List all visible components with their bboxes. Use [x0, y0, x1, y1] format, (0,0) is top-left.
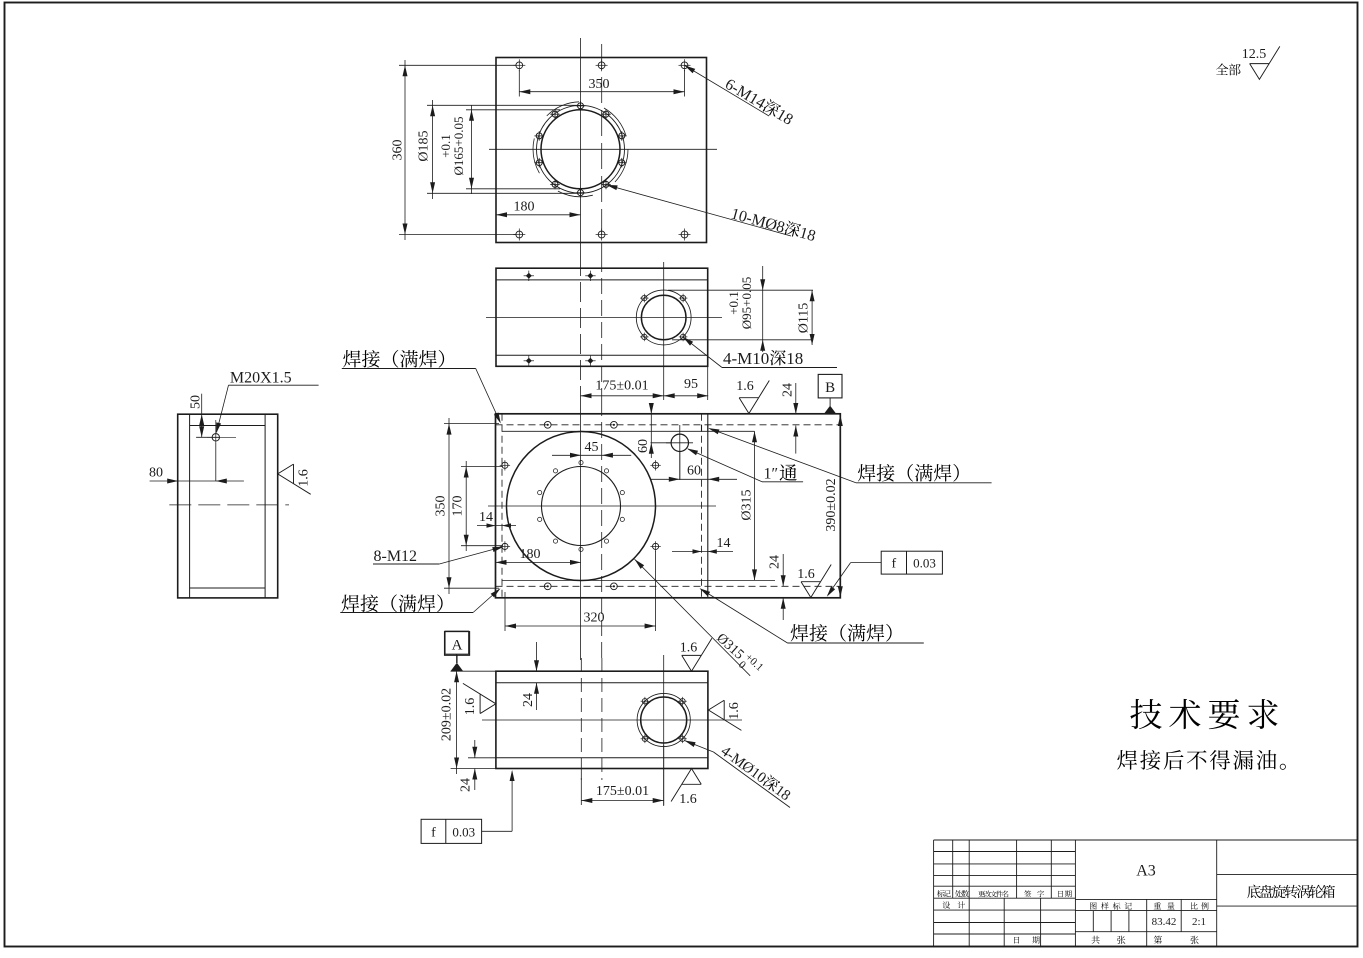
main view top tangent ext line — [502, 430, 755, 432]
svg-text:10-MØ8: 10-MØ8 — [729, 205, 787, 236]
svg-text:4-M10: 4-M10 — [723, 349, 769, 368]
side view flange lines — [190, 425, 266, 427]
dim 350 horizontal — [519, 91, 684, 93]
svg-text:180: 180 — [520, 547, 541, 562]
svg-text:350: 350 — [589, 77, 610, 92]
svg-text:B: B — [825, 380, 835, 396]
top view center bore circle — [541, 110, 620, 189]
dim 24 bottom view lower — [474, 740, 476, 758]
title block grid — [934, 840, 1358, 947]
dim 60 vertical — [650, 404, 652, 458]
svg-text:M20X1.5: M20X1.5 — [230, 370, 292, 387]
svg-text:18: 18 — [772, 782, 794, 804]
dim 14 right wall — [672, 551, 733, 553]
label 8-M12 — [374, 548, 418, 565]
main view hidden wall left dashed — [501, 414, 503, 598]
top view dashed spigot arc circle — [533, 102, 628, 197]
dim 14 left wall — [477, 525, 516, 527]
label M20X1.5 — [230, 370, 292, 387]
main view inner wall right dashed — [701, 414, 703, 598]
svg-text:Ø165+0.05: Ø165+0.05 — [451, 117, 466, 176]
dim 180 horizontal top view — [496, 214, 581, 216]
label 4-M10 deep18 — [723, 349, 803, 368]
dim 320 — [505, 625, 656, 627]
main view inner circle — [542, 467, 621, 546]
dim 80 side view — [150, 480, 244, 482]
svg-text:1.6: 1.6 — [679, 792, 697, 807]
top view corner holes 6-M14 — [516, 62, 523, 69]
surface 1.6 bottom view below — [671, 769, 701, 802]
top view 10 tapped holes M8 — [578, 103, 584, 109]
title block part name — [1247, 885, 1335, 899]
dim 24 bottom right — [782, 554, 784, 586]
bottom view flange lines — [496, 682, 708, 684]
weld label right middle — [858, 464, 959, 482]
main view big bore dia315 — [507, 432, 656, 581]
dim 170 — [465, 461, 467, 551]
main view hidden top dashed — [496, 424, 841, 426]
svg-text:80: 80 — [149, 466, 163, 481]
bottom view bolt circle arcs — [637, 693, 690, 746]
top view bolt circle — [537, 105, 625, 193]
front view centerline continuation — [580, 256, 582, 400]
dim 60 horizontal — [650, 478, 737, 480]
bottom view circle centerline vertical — [663, 655, 665, 806]
dim 175 front view — [581, 395, 664, 397]
svg-text:1.6: 1.6 — [727, 702, 742, 720]
svg-text:0.03: 0.03 — [452, 825, 475, 840]
dim 24 top right — [795, 383, 797, 414]
svg-text:1″: 1″ — [764, 466, 779, 483]
svg-text:18: 18 — [773, 106, 795, 129]
notch pipe boss — [702, 425, 708, 432]
dim 95 front view — [664, 395, 709, 397]
bottom view 4 tapped holes — [680, 699, 685, 704]
svg-text:1.6: 1.6 — [297, 469, 312, 487]
svg-text:50: 50 — [189, 395, 204, 409]
tech requirements title — [1130, 699, 1277, 729]
svg-text:Ø185: Ø185 — [417, 130, 432, 161]
front view 4 tapped holes M10 — [680, 295, 685, 300]
front view bore circle dia95 — [641, 295, 686, 340]
weld label bottom left — [342, 594, 443, 612]
svg-text:1.6: 1.6 — [463, 698, 478, 716]
feature frame f 0.03 bottom — [421, 819, 482, 843]
svg-text:360: 360 — [391, 140, 406, 161]
datum A symbol main — [445, 632, 470, 656]
svg-text:14: 14 — [479, 510, 493, 525]
label 4-M010 deep18 rotated — [685, 741, 714, 753]
main view hidden bottom dashed — [496, 585, 841, 587]
front view circle vertical centerline — [663, 262, 665, 400]
svg-text:A: A — [452, 638, 463, 654]
svg-text:1.6: 1.6 — [797, 567, 815, 582]
top view second centerline dashed — [601, 44, 603, 256]
weld label top left — [343, 350, 444, 368]
main view flange holes top/bottom — [544, 421, 551, 428]
svg-text:320: 320 — [584, 611, 605, 626]
side view centerline dashed — [169, 504, 289, 506]
tech requirements body — [1117, 750, 1286, 770]
datum B symbol — [818, 374, 842, 398]
dim 50 side view — [201, 394, 203, 438]
svg-text:Ø95+0.05: Ø95+0.05 — [739, 277, 754, 329]
main view inner wall right solid — [707, 414, 709, 598]
svg-text:24: 24 — [459, 778, 474, 792]
leader 10-M08 deep18 — [606, 185, 791, 236]
front view countersunk marks — [526, 273, 532, 279]
svg-text:14: 14 — [717, 536, 731, 551]
svg-text:83.42: 83.42 — [1152, 916, 1177, 928]
side view outline — [178, 414, 278, 598]
side view M20 hole — [212, 434, 219, 441]
svg-text:175±0.01: 175±0.01 — [595, 379, 648, 394]
bottom view outline — [496, 671, 708, 768]
dim 350 main — [448, 418, 450, 594]
svg-text:1.6: 1.6 — [736, 379, 754, 394]
top view horizontal centerline — [489, 148, 717, 150]
front view outline — [496, 268, 708, 366]
surface 1.6 side view — [278, 464, 311, 494]
svg-text:Ø315: Ø315 — [740, 489, 755, 520]
main view horizontal centerline — [488, 505, 716, 507]
dim dia185 vertical — [432, 100, 434, 199]
dim 180 main — [496, 561, 582, 563]
one-inch hole — [671, 434, 688, 451]
svg-text:390±0.02: 390±0.02 — [824, 478, 839, 531]
svg-text:170: 170 — [451, 496, 466, 517]
front view horizontal centerline — [486, 317, 722, 319]
main view bottom tangent ext line — [502, 579, 775, 581]
svg-text:6-M14: 6-M14 — [722, 76, 768, 113]
main view second centerline — [601, 400, 603, 660]
dim dia95 with tolerance — [668, 289, 813, 291]
svg-text:24: 24 — [768, 555, 783, 569]
svg-text:45: 45 — [585, 440, 599, 455]
svg-text:f: f — [891, 557, 896, 572]
dim 175 bottom view — [581, 800, 663, 802]
title block row labels — [937, 890, 951, 897]
svg-text:12.5: 12.5 — [1242, 47, 1267, 62]
svg-text:f: f — [431, 826, 436, 841]
svg-text:18: 18 — [786, 349, 803, 368]
surface 1.6 on main top edge — [739, 381, 769, 414]
bottom view horizontal centerline — [482, 719, 742, 721]
weld label bottom right — [791, 624, 892, 642]
dim 24 bottom view top — [536, 642, 538, 671]
side view inner wall lines — [189, 414, 191, 598]
svg-text:209±0.02: 209±0.02 — [440, 688, 455, 741]
svg-text:95: 95 — [684, 377, 698, 392]
surface 1.6 bottom edge main view — [801, 565, 831, 598]
dim dia115 — [811, 290, 813, 345]
surface 1.6 bottom view left edge — [463, 683, 496, 713]
surface 1.6 bottom view top — [682, 638, 712, 671]
svg-text:60: 60 — [636, 439, 651, 453]
top view vertical centerline — [580, 38, 582, 256]
label dia315 tolerance leader — [635, 559, 751, 676]
dim 360 vertical — [404, 60, 406, 240]
leader 6-M14 deep18 — [685, 65, 770, 116]
svg-text:A3: A3 — [1136, 863, 1156, 880]
front view flange lines — [496, 279, 708, 281]
svg-text:4-MØ10: 4-MØ10 — [718, 743, 769, 786]
svg-text:8-M12: 8-M12 — [374, 548, 418, 565]
svg-text:180: 180 — [514, 200, 535, 215]
svg-text:18: 18 — [797, 224, 817, 245]
surface 1.6 bottom view right — [708, 700, 741, 730]
svg-text:175±0.01: 175±0.01 — [596, 784, 649, 799]
feature frame f 0.03 right — [881, 551, 942, 574]
svg-text:350: 350 — [434, 496, 449, 517]
svg-text:1.6: 1.6 — [680, 641, 698, 656]
dim dia165 vertical with tolerance — [471, 105, 473, 194]
top view outline — [496, 58, 707, 243]
dim 390 right — [839, 414, 841, 598]
svg-text:60: 60 — [687, 464, 701, 479]
svg-text:24: 24 — [781, 383, 796, 397]
main view side holes 8-M12 — [502, 462, 508, 468]
svg-text:24: 24 — [521, 693, 536, 707]
surface note all 12.5 — [1216, 64, 1241, 76]
svg-text:Ø115: Ø115 — [797, 303, 812, 334]
dim 45 — [552, 454, 631, 456]
main view 10 small holes — [579, 461, 583, 465]
bottom view centerlines dashed — [580, 658, 582, 780]
main view outline — [496, 414, 841, 598]
svg-text:2:1: 2:1 — [1192, 916, 1206, 928]
svg-text:Ø315: Ø315 — [713, 631, 746, 663]
svg-text:0.03: 0.03 — [913, 556, 936, 571]
front view bolt circle dia115 — [636, 290, 691, 345]
dim dia315 — [754, 431, 756, 580]
datum A symbol bottom view — [445, 631, 469, 654]
bottom view bore circle — [641, 697, 687, 743]
dim 209 vertical — [456, 666, 458, 774]
main view centerline vertical — [580, 400, 582, 660]
